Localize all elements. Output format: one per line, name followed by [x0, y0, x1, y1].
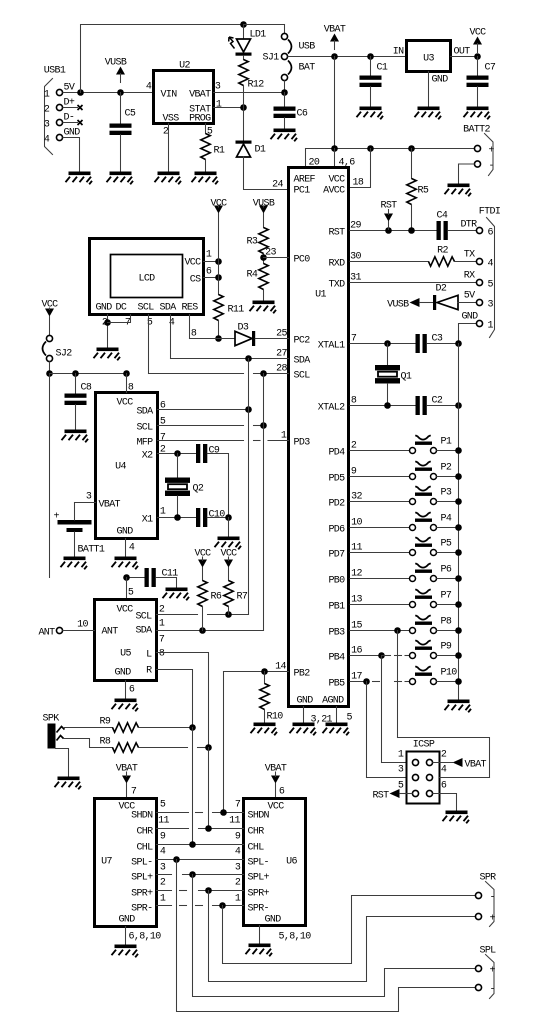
svg-text:R6: R6 — [211, 592, 222, 603]
svg-text:SPL-: SPL- — [248, 858, 269, 869]
svg-text:5V: 5V — [64, 83, 75, 94]
capacitor C1 — [360, 76, 382, 88]
svg-text:3: 3 — [215, 82, 221, 93]
wire U1 pin row to P8 — [350, 630, 409, 632]
SPL - pad — [475, 984, 481, 990]
wire BATT2 - to ground — [459, 164, 475, 184]
wire R8 to L net — [198, 747, 209, 749]
wire hop dash 2 SPR- row — [196, 905, 203, 907]
wire hop dash on P9 row — [395, 655, 402, 657]
svg-text:16: 16 — [351, 646, 362, 657]
svg-text:4: 4 — [169, 318, 175, 329]
pushbutton P9 — [410, 640, 437, 658]
svg-text:1: 1 — [235, 894, 241, 905]
wire U4 X2 to C9 — [158, 453, 197, 455]
wire SPL+ net to SPL connector — [193, 875, 476, 997]
junction rail / AVCC riser — [367, 145, 374, 152]
wire P8 to ground rail — [437, 630, 459, 632]
wire U1 PB4 pin16 to P9 — [350, 655, 382, 657]
wire LCD RES to D3 — [190, 338, 235, 340]
svg-text:9: 9 — [351, 467, 357, 478]
wire U6 VCC stub — [275, 784, 277, 799]
svg-text:VCC: VCC — [117, 398, 134, 409]
svg-text:TXD: TXD — [328, 280, 345, 291]
junction SPL- tap — [173, 856, 180, 863]
wire R7 to SCL row — [228, 607, 230, 615]
resistor R5 — [407, 179, 416, 205]
junction C9/C10 ground leg — [225, 514, 232, 521]
svg-text:GND: GND — [117, 527, 134, 538]
wire R8 (left of hop) — [139, 747, 188, 749]
svg-text:7: 7 — [160, 433, 166, 444]
svg-text:6,8,10: 6,8,10 — [129, 932, 162, 943]
svg-text:CHR: CHR — [136, 827, 153, 838]
junction LCD CS — [215, 274, 222, 281]
wire U5 R pin8 down — [157, 670, 193, 728]
SJ1 pad BAT — [281, 74, 287, 80]
resistor R12 — [239, 60, 248, 86]
ground U3 — [415, 107, 442, 120]
power flag VBAT — [324, 25, 346, 50]
power flag VBAT (U6) — [265, 764, 287, 784]
svg-text:C8: C8 — [81, 383, 92, 394]
svg-text:C5: C5 — [125, 109, 136, 120]
junction P1 / ground rail — [455, 447, 462, 454]
wire P2 to ground rail — [437, 476, 459, 478]
ground C9/C10 — [215, 537, 242, 550]
ground C6 — [271, 129, 298, 142]
wire LD1 top lead — [243, 25, 245, 39]
svg-text:USB1: USB1 — [44, 66, 66, 77]
wire VUSB to R3 — [263, 214, 265, 228]
ground pushbutton rail — [445, 700, 472, 713]
pushbutton P2 — [410, 461, 437, 479]
wire into ICSP pin1 — [382, 762, 407, 764]
svg-text:7: 7 — [159, 635, 165, 646]
junction SCL bus — [260, 370, 267, 377]
svg-text:PB1: PB1 — [328, 602, 345, 613]
svg-text:5: 5 — [160, 800, 166, 811]
wire R12 to D1 (crosses VBAT wire) — [243, 86, 245, 142]
no-connect X on D+ — [78, 105, 83, 110]
svg-text:VSS: VSS — [163, 114, 180, 125]
svg-text:DTR: DTR — [460, 220, 477, 231]
svg-text:8: 8 — [191, 329, 197, 340]
svg-text:+: + — [54, 512, 60, 523]
svg-text:Q1: Q1 — [401, 372, 412, 383]
wire SDA row to U1 pin27 — [171, 358, 289, 360]
junction XTAL1 / Q1 — [384, 340, 391, 347]
ground R1 — [192, 172, 219, 185]
svg-text:CHL: CHL — [248, 843, 265, 854]
svg-text:SJ2: SJ2 — [56, 349, 73, 360]
net flag VUSB (left arrow) — [387, 298, 419, 311]
svg-text:PD5: PD5 — [328, 474, 345, 485]
wire hop dash on MFP row — [254, 440, 261, 442]
junction P2 / ground rail — [455, 473, 462, 480]
svg-text:6: 6 — [206, 267, 212, 278]
ground C11 — [163, 588, 190, 601]
svg-text:1: 1 — [159, 619, 165, 630]
svg-text:SCL: SCL — [135, 612, 152, 623]
junction P6 / ground rail — [455, 575, 462, 582]
wire SCL bus vertical — [263, 374, 265, 631]
wire C1 bottom lead — [370, 87, 372, 107]
BATT2 + pad — [474, 145, 480, 151]
junction CHR / L net — [205, 825, 212, 832]
wire SPL- row U7 pin4 to U6 pin4 — [157, 859, 244, 861]
wire U1 PB5 pin17 to P10 — [350, 681, 367, 683]
wire R net down to CHL row — [192, 728, 194, 845]
svg-text:4: 4 — [44, 135, 50, 146]
wire U5 SCL to SDA-bus vertical — [208, 614, 249, 616]
svg-text:2: 2 — [351, 441, 357, 452]
svg-text:29: 29 — [350, 221, 361, 232]
svg-text:PD3: PD3 — [294, 438, 311, 449]
IC U2 box — [154, 71, 214, 124]
svg-text:9: 9 — [235, 832, 241, 843]
svg-text:R3: R3 — [247, 237, 258, 248]
svg-text:P8: P8 — [441, 617, 452, 628]
wire U1 pin row to P3 — [350, 501, 409, 503]
svg-text:ANT: ANT — [102, 627, 119, 638]
pushbutton P8 — [410, 615, 437, 633]
svg-text:U2: U2 — [179, 61, 190, 72]
crystal Q2 — [165, 478, 190, 497]
power flag VCC (R6) — [194, 549, 211, 568]
junction SDA bus — [245, 355, 252, 362]
svg-text:4: 4 — [441, 765, 447, 776]
svg-text:PD2: PD2 — [328, 499, 345, 510]
svg-text:ANT: ANT — [38, 628, 55, 639]
svg-text:5V: 5V — [464, 291, 475, 302]
svg-text:15: 15 — [351, 621, 362, 632]
svg-text:PROG: PROG — [189, 114, 211, 125]
capacitor C4 — [437, 221, 448, 240]
svg-text:P4: P4 — [441, 514, 452, 525]
SPK ring contact — [57, 736, 64, 741]
junction R6 / SDA row — [199, 627, 206, 634]
wire P3 to ground rail — [437, 501, 459, 503]
junction CHL / R net — [189, 841, 196, 848]
ground C7 — [464, 107, 491, 120]
wire ICSP pin4 right — [440, 777, 490, 779]
SPL bracket — [486, 955, 495, 999]
svg-text:SDA: SDA — [160, 303, 177, 314]
svg-text:4: 4 — [488, 259, 494, 270]
wire U1 pin row to P1 — [350, 450, 409, 452]
wire L net down to CHR row — [208, 748, 210, 829]
ground R4 — [250, 301, 277, 314]
SJ2 arc — [43, 342, 47, 356]
svg-text:P7: P7 — [441, 591, 452, 602]
svg-text:2: 2 — [160, 878, 166, 889]
junction LCD VCC — [215, 258, 222, 265]
wire LCD VCC pin1 — [204, 261, 219, 263]
svg-text:TX: TX — [464, 250, 475, 261]
svg-text:U5: U5 — [120, 649, 131, 660]
svg-text:C1: C1 — [377, 63, 388, 74]
resistor R1 — [201, 134, 210, 160]
capacitor C8 — [65, 394, 87, 406]
ground C1 — [357, 107, 384, 120]
svg-text:R: R — [146, 666, 152, 677]
wire top run to SJ1 — [244, 24, 285, 26]
FTDI pin 1 (GND) — [476, 320, 482, 326]
svg-text:U3: U3 — [423, 54, 434, 65]
svg-text:SPR-: SPR- — [248, 904, 269, 915]
wire LCD SDA pin4 down — [170, 315, 172, 359]
svg-text:SPL-: SPL- — [131, 858, 152, 869]
wire P7 to ground rail — [437, 604, 459, 606]
wire hop dash on P10 row — [373, 681, 380, 683]
ICSP pin 3 — [412, 774, 418, 780]
wire VBAT down to U1 VCC rail — [334, 57, 336, 149]
svg-text:SPR+: SPR+ — [248, 889, 270, 900]
wire R11 to D3 row — [218, 321, 220, 339]
svg-text:6: 6 — [441, 781, 447, 792]
wire hop dash SHDN row — [196, 812, 203, 814]
wire C11 to ground — [156, 578, 177, 588]
svg-text:P9: P9 — [441, 642, 452, 653]
svg-text:RXD: RXD — [328, 259, 345, 270]
svg-text:SDA: SDA — [136, 407, 153, 418]
svg-text:D-: D- — [64, 113, 75, 124]
wire U1 pin row to P6 — [350, 578, 409, 580]
wire SPK sleeve to ground — [56, 749, 69, 777]
svg-text:23: 23 — [265, 248, 276, 259]
svg-text:5: 5 — [347, 713, 353, 724]
SPR - pad — [475, 892, 481, 898]
svg-text:2: 2 — [235, 878, 241, 889]
wire SHDN row (from U7 pin5) — [157, 812, 189, 814]
junction PB3 / ICSP riser — [394, 627, 401, 634]
wire 5V to SJ1 USB side (top run) — [81, 25, 244, 93]
svg-text:FTDI: FTDI — [479, 207, 500, 218]
wire hop dash 2 on P10 row — [395, 681, 402, 683]
svg-text:X1: X1 — [142, 515, 153, 526]
wire U2 STAT pin1 to LED chain — [214, 107, 244, 109]
svg-text:12: 12 — [351, 569, 362, 580]
svg-text:R5: R5 — [418, 186, 429, 197]
pushbutton P7 — [410, 589, 437, 607]
SJ2 pad top — [46, 335, 52, 341]
junction rail / R5 — [408, 145, 415, 152]
wire C8 top lead — [75, 374, 77, 394]
svg-text:SCL: SCL — [294, 371, 311, 382]
diode D2 — [433, 295, 458, 310]
power flag VCC (LCD) — [210, 199, 227, 214]
wire U1 TXD pin31 to FTDI RX — [350, 282, 476, 284]
junction C8 — [72, 370, 79, 377]
wire R2 to FTDI TX — [455, 261, 477, 263]
wire Q2 top lead — [177, 454, 179, 478]
svg-text:C7: C7 — [485, 63, 496, 74]
wire VCC to R7 — [228, 568, 230, 581]
svg-text:1: 1 — [216, 100, 222, 111]
wire U4 VBAT to BATT1 — [75, 502, 96, 504]
svg-text:4: 4 — [235, 847, 241, 858]
wire MFP to U1 PD3 (right) — [268, 440, 289, 442]
svg-text:VUSB: VUSB — [387, 300, 409, 311]
svg-text:4: 4 — [146, 82, 152, 93]
junction VBAT flag — [331, 53, 338, 60]
svg-text:3: 3 — [235, 863, 241, 874]
power flag VUSB (R3) — [253, 199, 275, 214]
junction U4 SCL / bus — [260, 422, 267, 429]
svg-text:8: 8 — [351, 396, 357, 407]
USB1 pin 4 (GND) — [56, 134, 62, 140]
ICSP pin 4 — [426, 774, 432, 780]
junction BAT node / C6 — [281, 89, 288, 96]
wire SPR+ net to SPR connector — [209, 891, 476, 982]
svg-text:2: 2 — [163, 127, 169, 138]
wire C5 bottom lead — [120, 135, 122, 172]
svg-text:13: 13 — [351, 595, 362, 606]
svg-text:9: 9 — [160, 832, 166, 843]
IC U6 box — [244, 799, 306, 926]
svg-text:GND: GND — [119, 915, 136, 926]
power flag VCC (top) — [469, 28, 486, 53]
wire SPK ring to R8 — [64, 739, 113, 748]
svg-text:SCL: SCL — [138, 303, 155, 314]
power flag VCC (SJ2) — [41, 300, 58, 317]
svg-text:SDA: SDA — [294, 356, 311, 367]
svg-text:X2: X2 — [142, 451, 153, 462]
pushbutton P1 — [410, 435, 437, 453]
SJ1 arc USB-center — [288, 40, 292, 54]
svg-text:VIN: VIN — [161, 90, 178, 101]
junction X2 / Q2 — [174, 450, 181, 457]
wire U4 VCC stub — [126, 374, 128, 393]
junction R7 / SCL row — [225, 611, 232, 618]
svg-text:GND: GND — [432, 75, 449, 86]
wire PB4 riser down to ICSP pin1 — [381, 656, 383, 763]
IC U1 box — [289, 168, 349, 707]
wire R1 to ground — [205, 160, 207, 172]
svg-text:11: 11 — [229, 816, 240, 827]
svg-text:SPR+: SPR+ — [131, 889, 153, 900]
wire D2 to FTDI 5V — [458, 302, 476, 304]
resistor R3 — [259, 228, 268, 254]
ground SPK — [55, 777, 82, 790]
SJ2 pad bottom — [46, 355, 52, 361]
SPR bracket — [486, 882, 495, 927]
wire SHDN row to U6 pin7 — [213, 812, 244, 814]
ground USB1 — [66, 172, 93, 185]
wire BATT1 + lead — [74, 503, 76, 521]
svg-text:ICSP: ICSP — [413, 740, 435, 751]
svg-text:32: 32 — [351, 492, 362, 503]
wire LCD RES pin8 down — [189, 315, 191, 339]
svg-text:3: 3 — [398, 765, 404, 776]
svg-text:MFP: MFP — [136, 438, 153, 449]
resistor R10 — [260, 684, 269, 710]
svg-text:VCC: VCC — [469, 28, 486, 39]
svg-text:DC: DC — [116, 303, 127, 314]
svg-text:10: 10 — [351, 518, 362, 529]
capacitor C7 — [467, 76, 489, 88]
svg-text:1: 1 — [44, 90, 50, 101]
svg-text:4: 4 — [129, 543, 135, 554]
pushbutton P10 — [410, 666, 437, 684]
svg-text:XTAL2: XTAL2 — [318, 403, 345, 414]
BATT2 - pad — [474, 161, 480, 167]
wire ICSP pin2 to VBAT flag — [433, 762, 453, 764]
wire VCC to R6 — [202, 568, 204, 581]
wire LD1 to R12 — [243, 56, 245, 60]
wire LCD CS pin6 — [204, 277, 219, 279]
wire P9 to ground rail — [437, 655, 459, 657]
wire LCD DC pin7 to GND stub — [108, 315, 131, 323]
wire P4 to ground rail — [437, 527, 459, 529]
wire hop dash SPR- row — [180, 905, 187, 907]
SPK tip contact — [57, 727, 65, 733]
junction P3 / ground rail — [455, 498, 462, 505]
svg-text:VCC: VCC — [117, 605, 134, 616]
wire into P10 button — [405, 681, 409, 683]
wire Q1 bottom lead — [387, 384, 389, 406]
wire U1 GND stub — [303, 707, 305, 723]
wire divider to U1 PC0 pin23 — [264, 257, 289, 259]
wire U5 VCC stub — [126, 578, 128, 600]
svg-text:3: 3 — [488, 300, 494, 311]
svg-text:1: 1 — [281, 431, 287, 442]
svg-text:AGND: AGND — [322, 696, 344, 707]
ground ICSP — [443, 811, 470, 824]
svg-text:VBAT: VBAT — [324, 25, 346, 36]
svg-text:1: 1 — [160, 507, 166, 518]
svg-text:XTAL1: XTAL1 — [318, 341, 345, 352]
wire 5V rail from USB1 pin1 to U2 VIN — [63, 92, 154, 94]
svg-text:RES: RES — [182, 303, 199, 314]
svg-text:PC2: PC2 — [294, 336, 311, 347]
wire D3 to U1 PC2 pin25 — [255, 338, 288, 340]
wire SPL+ row (from U7 pin3) — [157, 874, 172, 876]
svg-text:D3: D3 — [238, 323, 249, 334]
connector USB1 bracket — [45, 79, 53, 155]
pushbutton P5 — [410, 537, 437, 555]
svg-text:3: 3 — [86, 492, 92, 503]
svg-text:3: 3 — [44, 120, 50, 131]
SJ1 arc center-BAT — [288, 61, 292, 75]
wire SJ1 BAT pad down — [284, 81, 286, 93]
junction P10 / ground rail — [455, 678, 462, 685]
wire U3 OUT to VCC node — [451, 56, 478, 58]
svg-text:CS: CS — [190, 275, 201, 286]
svg-text:LD1: LD1 — [250, 30, 267, 41]
BATT2 bracket — [485, 134, 494, 176]
svg-text:SPL+: SPL+ — [248, 873, 270, 884]
svg-text:P3: P3 — [441, 488, 452, 499]
svg-text:U1: U1 — [315, 290, 326, 301]
pushbutton P6 — [410, 563, 437, 581]
junction U4 SDA / bus — [245, 406, 252, 413]
wire R5 top lead — [411, 149, 413, 179]
junction P8 / ground rail — [455, 627, 462, 634]
power flag VBAT (U7) — [116, 764, 138, 784]
svg-text:PB5: PB5 — [328, 679, 345, 690]
svg-text:17: 17 — [351, 672, 362, 683]
svg-text:Q2: Q2 — [193, 484, 204, 495]
junction rail / VBAT feed — [331, 145, 338, 152]
LCD screen inner box — [111, 255, 183, 298]
junction LCD GND/DC — [104, 319, 111, 326]
wire into ICSP pin3 — [367, 777, 407, 779]
wire R5 bottom lead — [411, 205, 413, 231]
junction P7 / ground rail — [455, 601, 462, 608]
wire U4 MFP to U1 PD3 (left) — [158, 440, 244, 442]
